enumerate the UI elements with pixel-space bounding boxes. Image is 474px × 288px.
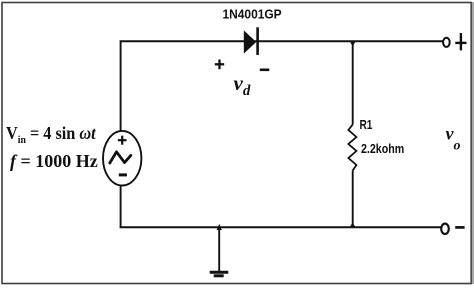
wire top horizontal (source to output terminal) [120, 40, 444, 42]
label + (diode anode polarity) [215, 60, 224, 70]
junction (top of resistor branch) [350, 42, 355, 46]
wire right vertical lower (resistor to bottom wire) [352, 171, 354, 229]
output terminal + (top right) [443, 38, 450, 47]
label - (diode cathode polarity) [260, 69, 270, 72]
ground [210, 272, 229, 276]
resistor R1 [348, 125, 356, 171]
svg-text:2.2kohm: 2.2kohm [361, 141, 404, 156]
wire right vertical upper (top wire to resistor) [352, 41, 354, 125]
junction (ground tap on bottom wire) [217, 224, 222, 230]
wire left vertical upper (top wire down to source) [120, 41, 122, 132]
wire bottom horizontal [120, 226, 441, 228]
svg-text:1N4001GP: 1N4001GP [223, 7, 282, 22]
output terminal - (bottom right) [441, 224, 449, 234]
diode D1 1N4001GP [244, 27, 258, 55]
label + (output polarity top) [455, 33, 466, 50]
wire left vertical lower (source to bottom wire) [120, 186, 122, 229]
svg-text:f = 1000 Hz: f = 1000 Hz [10, 151, 98, 171]
svg-text:R1: R1 [360, 118, 373, 132]
label - (output polarity bottom) [455, 226, 464, 229]
ac source V1 [103, 131, 141, 186]
junction (bottom of resistor branch) [350, 223, 356, 227]
wire ground stem [218, 227, 220, 272]
